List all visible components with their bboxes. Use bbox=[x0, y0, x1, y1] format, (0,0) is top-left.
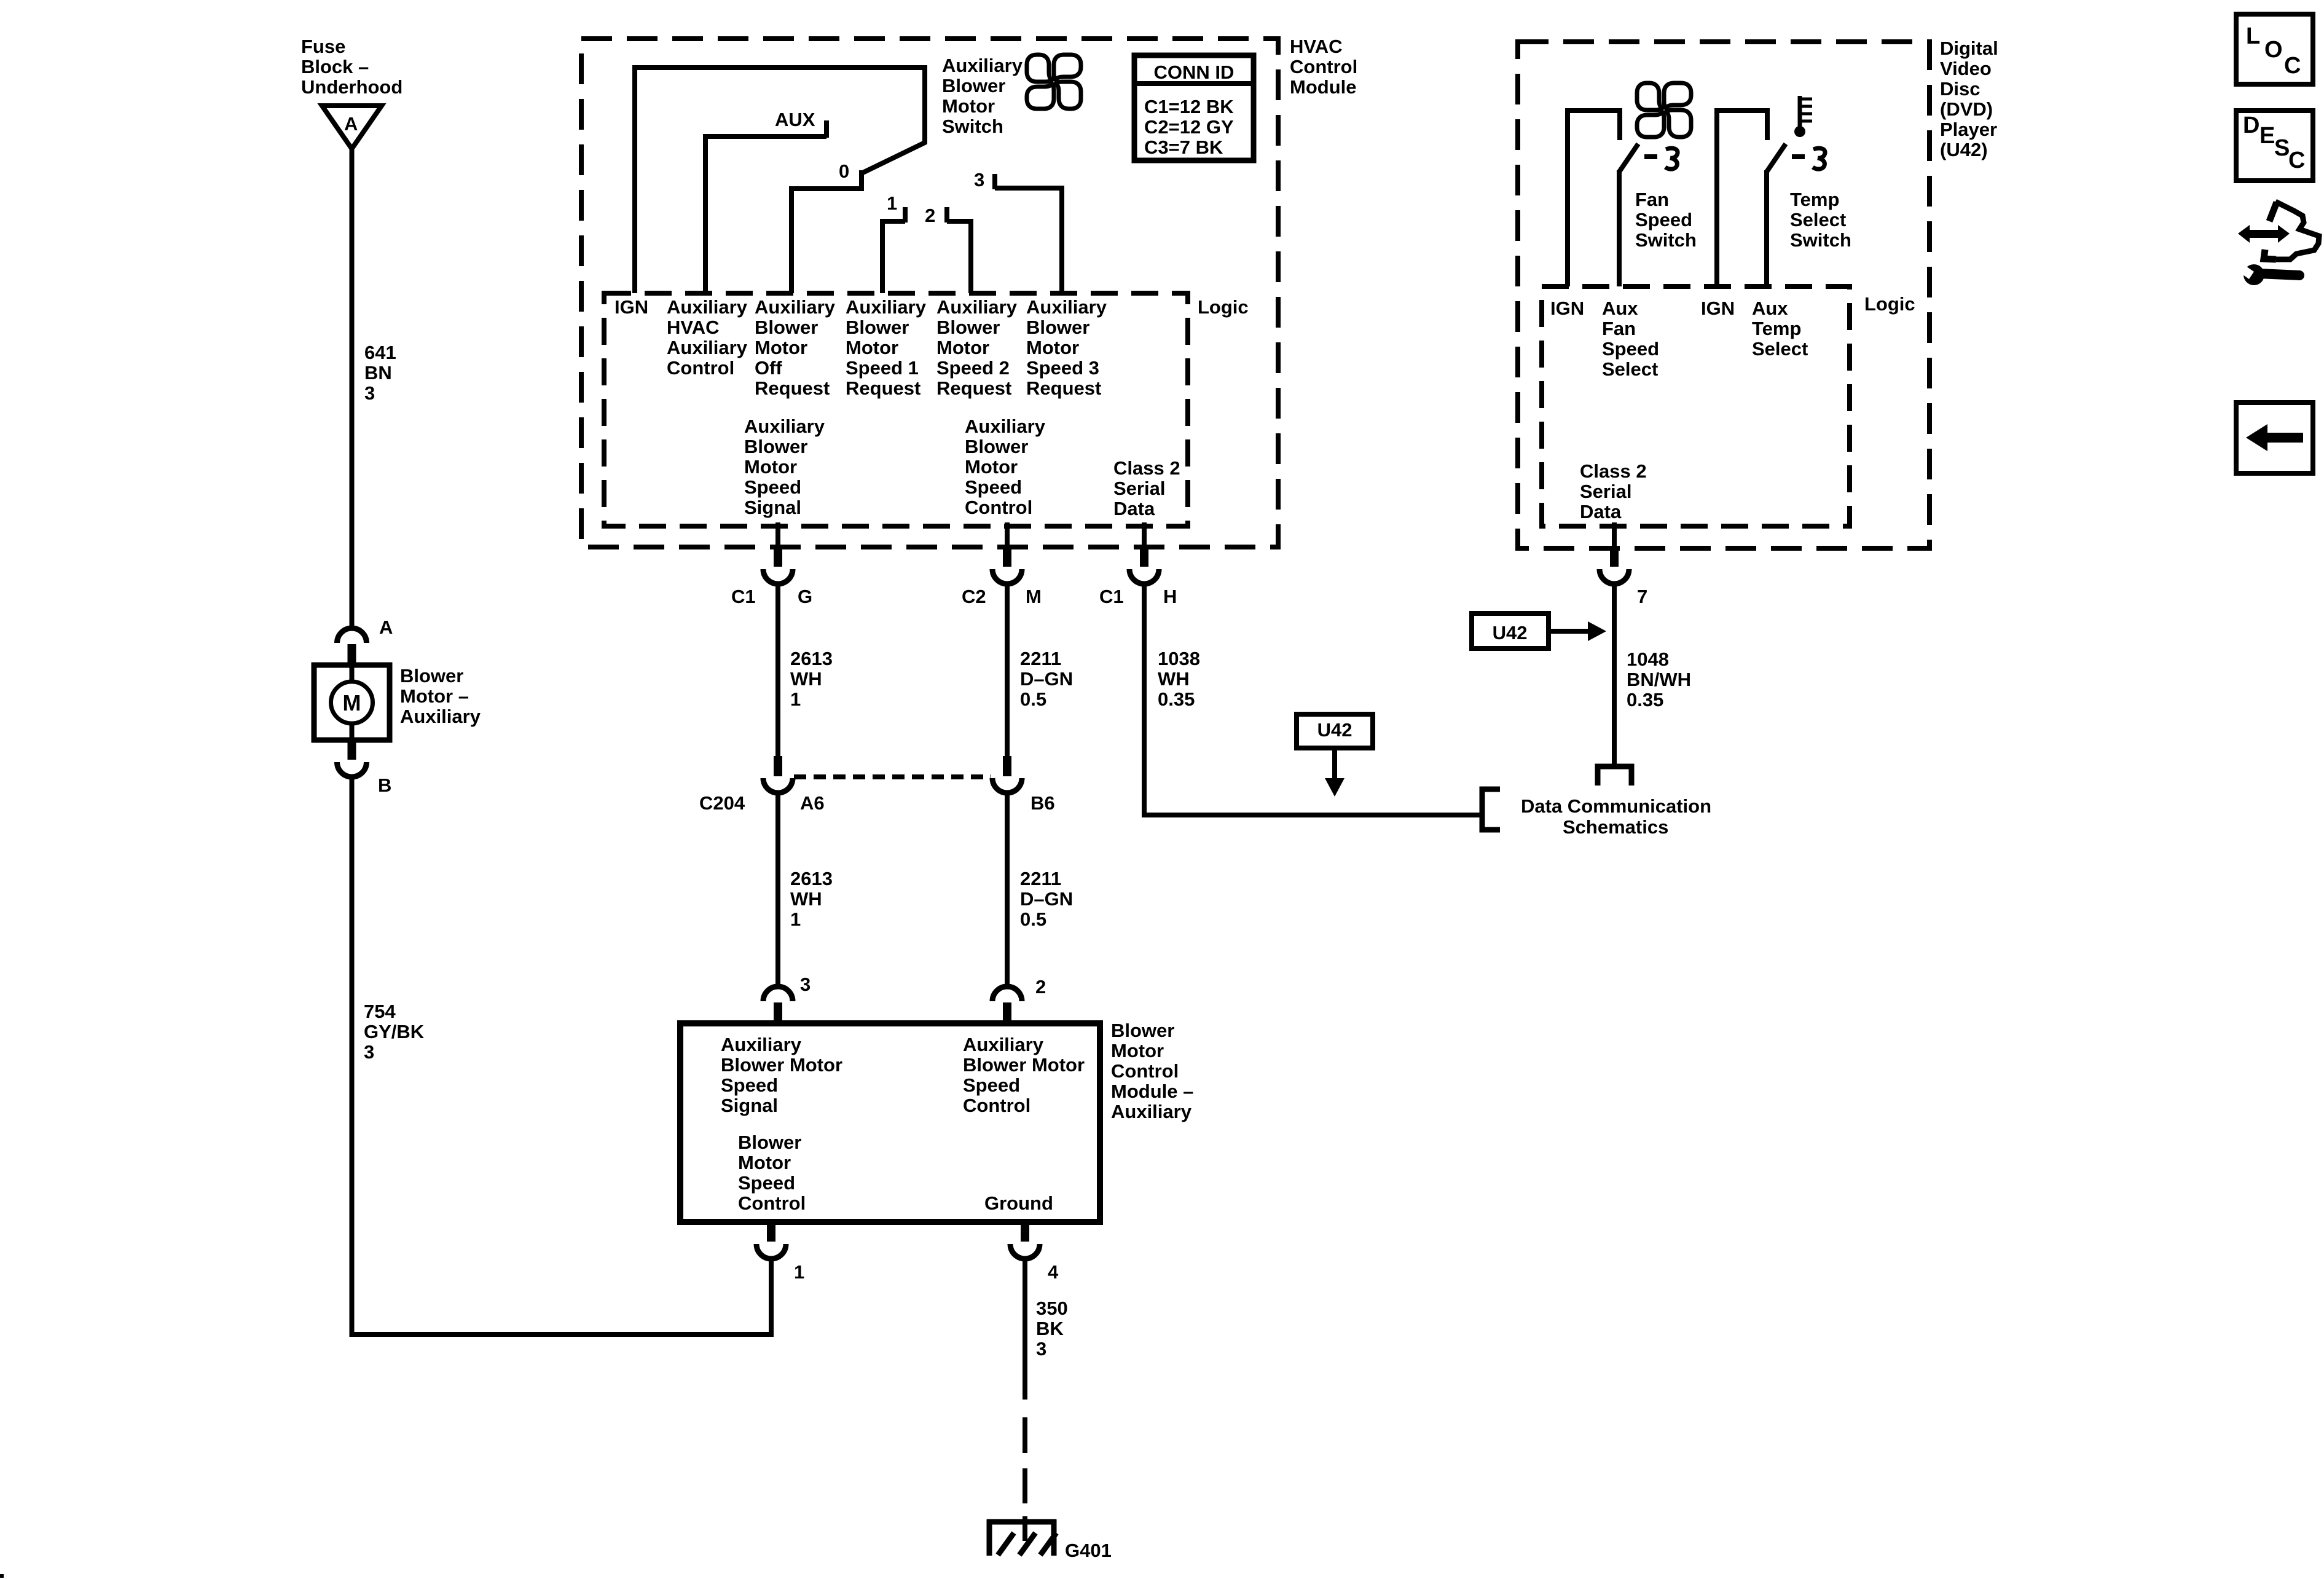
svg-text:BN/WH: BN/WH bbox=[1627, 669, 1691, 690]
svg-text:IGN: IGN bbox=[1701, 297, 1735, 319]
svg-text:O: O bbox=[2264, 37, 2283, 63]
CONN ID table bbox=[1134, 55, 1254, 160]
svg-text:3: 3 bbox=[364, 382, 375, 404]
svg-text:1: 1 bbox=[794, 1261, 804, 1283]
svg-text:Blower: Blower bbox=[744, 436, 807, 457]
svg-text:Switch: Switch bbox=[1790, 229, 1851, 251]
svg-text:Auxiliary: Auxiliary bbox=[667, 296, 748, 318]
svg-text:Control: Control bbox=[963, 1095, 1030, 1116]
svg-text:Motor: Motor bbox=[846, 337, 898, 358]
svg-text:Auxiliary: Auxiliary bbox=[1111, 1101, 1192, 1122]
svg-text:Video: Video bbox=[1940, 58, 1992, 79]
svg-text:GY/BK: GY/BK bbox=[364, 1021, 425, 1042]
svg-text:Auxiliary: Auxiliary bbox=[846, 296, 927, 318]
svg-text:Digital: Digital bbox=[1940, 37, 1998, 59]
svg-text:Module: Module bbox=[1290, 76, 1357, 98]
svg-text:Speed: Speed bbox=[1602, 338, 1659, 360]
fan icon (HVAC) bbox=[1027, 55, 1081, 109]
svg-text:754: 754 bbox=[364, 1001, 396, 1022]
U42 arrow right bbox=[1549, 629, 1589, 634]
svg-text:Speed: Speed bbox=[963, 1074, 1020, 1096]
svg-text:D–GN: D–GN bbox=[1020, 668, 1073, 690]
connector C204 pin A6 bbox=[774, 756, 782, 776]
wire 2211 D-GN 0.5 (lower) bbox=[1005, 793, 1010, 989]
fuse block connector A (triangle) bbox=[322, 106, 382, 149]
svg-text:3: 3 bbox=[364, 1041, 374, 1063]
connector pin 4 bbox=[1021, 1221, 1029, 1242]
wire 350 BK 3 bbox=[1023, 1259, 1027, 1400]
blower motor - auxiliary bbox=[314, 665, 390, 740]
svg-text:Control: Control bbox=[667, 357, 734, 379]
svg-text:WH: WH bbox=[1158, 668, 1190, 690]
svg-text:Control: Control bbox=[965, 497, 1032, 518]
wire 754 GY/BK 3 bbox=[352, 776, 772, 1334]
svg-text:BN: BN bbox=[364, 362, 392, 384]
DVD player box bbox=[1518, 42, 1929, 548]
svg-text:Motor: Motor bbox=[965, 456, 1018, 478]
C204 dashed link bbox=[794, 774, 991, 779]
svg-text:Auxiliary: Auxiliary bbox=[667, 337, 748, 358]
svg-text:Select: Select bbox=[1602, 358, 1658, 380]
svg-text:Request: Request bbox=[846, 377, 921, 399]
svg-text:Data: Data bbox=[1113, 498, 1155, 519]
svg-text:Blower: Blower bbox=[1111, 1020, 1174, 1041]
svg-text:Select: Select bbox=[1752, 338, 1808, 360]
svg-text:0.5: 0.5 bbox=[1020, 688, 1046, 710]
DVD logic box bbox=[1542, 286, 1850, 526]
connector C1 pin H bbox=[1142, 522, 1147, 548]
svg-text:C1: C1 bbox=[731, 586, 756, 607]
U42 arrow down bbox=[1332, 748, 1337, 779]
svg-text:3: 3 bbox=[1036, 1338, 1046, 1360]
svg-text:HVAC: HVAC bbox=[1290, 36, 1343, 57]
svg-text:3: 3 bbox=[974, 169, 984, 191]
fan speed switch bbox=[1568, 111, 1620, 286]
svg-text:E: E bbox=[2259, 123, 2275, 149]
svg-text:M: M bbox=[343, 690, 361, 715]
svg-text:Motor: Motor bbox=[936, 337, 989, 358]
svg-text:Speed: Speed bbox=[965, 476, 1022, 498]
svg-text:Off: Off bbox=[755, 357, 782, 379]
svg-text:B: B bbox=[378, 774, 391, 796]
schematic-reference icon (arrows + wrench) bbox=[2248, 230, 2279, 238]
ground G401 bbox=[987, 1519, 1056, 1525]
svg-text:2211: 2211 bbox=[1020, 648, 1061, 669]
wire 2211 D-GN 0.5 (upper) bbox=[1005, 584, 1010, 757]
svg-text:Auxiliary: Auxiliary bbox=[936, 296, 1018, 318]
DESC icon bbox=[2236, 111, 2313, 181]
svg-text:2211: 2211 bbox=[1020, 868, 1061, 889]
svg-text:1038: 1038 bbox=[1158, 648, 1200, 669]
svg-text:Class 2: Class 2 bbox=[1113, 457, 1180, 479]
svg-text:2: 2 bbox=[1035, 976, 1046, 998]
svg-text:B6: B6 bbox=[1030, 792, 1055, 814]
svg-text:A: A bbox=[344, 113, 358, 135]
svg-text:Motor: Motor bbox=[755, 337, 807, 358]
svg-text:C: C bbox=[2284, 53, 2301, 79]
svg-text:Motor: Motor bbox=[1111, 1040, 1164, 1061]
connector B of blower motor bbox=[348, 739, 356, 760]
connector pin 3 of blower motor control module bbox=[763, 986, 793, 1001]
svg-text:M: M bbox=[1026, 586, 1042, 607]
svg-text:WH: WH bbox=[790, 668, 822, 690]
svg-text:3: 3 bbox=[800, 974, 811, 995]
svg-text:2: 2 bbox=[925, 205, 935, 226]
svg-text:Speed 2: Speed 2 bbox=[936, 357, 1010, 379]
svg-text:641: 641 bbox=[364, 342, 396, 363]
U42 reference box (left) bbox=[1297, 714, 1373, 748]
svg-text:Temp: Temp bbox=[1752, 318, 1801, 339]
svg-text:1048: 1048 bbox=[1627, 648, 1669, 670]
U42 reference box (right) bbox=[1472, 613, 1549, 648]
contact 1 bbox=[903, 207, 908, 222]
svg-text:Ground: Ground bbox=[984, 1192, 1053, 1214]
svg-text:Data Communication: Data Communication bbox=[1521, 795, 1711, 817]
svg-text:Motor –: Motor – bbox=[400, 685, 469, 707]
contact 3 bbox=[992, 174, 997, 189]
svg-text:Auxiliary: Auxiliary bbox=[942, 55, 1023, 76]
svg-text:G401: G401 bbox=[1065, 1540, 1112, 1561]
svg-text:Switch: Switch bbox=[942, 116, 1003, 137]
svg-text:C2=12 GY: C2=12 GY bbox=[1144, 116, 1234, 138]
svg-text:Fan: Fan bbox=[1635, 189, 1669, 210]
svg-text:Blower: Blower bbox=[738, 1132, 801, 1153]
svg-text:C1=12 BK: C1=12 BK bbox=[1144, 96, 1234, 117]
svg-text:Data: Data bbox=[1580, 501, 1622, 522]
svg-text:Temp: Temp bbox=[1790, 189, 1839, 210]
svg-text:0.35: 0.35 bbox=[1158, 688, 1195, 710]
contact 2 bbox=[944, 207, 949, 222]
svg-text:Auxiliary: Auxiliary bbox=[1026, 296, 1107, 318]
svg-text:Auxiliary: Auxiliary bbox=[400, 706, 481, 727]
svg-text:Speed 3: Speed 3 bbox=[1026, 357, 1099, 379]
svg-text:Fuse: Fuse bbox=[301, 36, 345, 57]
svg-text:D: D bbox=[2243, 112, 2259, 138]
svg-text:0.35: 0.35 bbox=[1627, 689, 1663, 711]
svg-text:C2: C2 bbox=[962, 586, 986, 607]
svg-text:Request: Request bbox=[1026, 377, 1101, 399]
svg-text:0.5: 0.5 bbox=[1020, 908, 1046, 930]
svg-text:Blower: Blower bbox=[942, 75, 1005, 96]
svg-text:U42: U42 bbox=[1317, 719, 1352, 741]
connector pin 1 bbox=[767, 1221, 775, 1242]
svg-text:Signal: Signal bbox=[721, 1095, 778, 1116]
svg-text:A: A bbox=[379, 616, 393, 638]
svg-text:Auxiliary: Auxiliary bbox=[965, 415, 1046, 437]
svg-text:2613: 2613 bbox=[790, 648, 833, 669]
svg-text:Logic: Logic bbox=[1198, 296, 1249, 318]
LOC icon bbox=[2236, 14, 2313, 84]
svg-text:Control: Control bbox=[738, 1192, 806, 1214]
connector C204 pin B6 bbox=[1003, 756, 1011, 776]
HVAC logic box bbox=[604, 293, 1188, 526]
svg-text:Player: Player bbox=[1940, 119, 1997, 140]
svg-text:H: H bbox=[1163, 586, 1177, 607]
svg-text:AUX: AUX bbox=[775, 109, 815, 130]
svg-text:Disc: Disc bbox=[1940, 78, 1980, 100]
svg-text:1: 1 bbox=[790, 908, 801, 930]
svg-text:A6: A6 bbox=[800, 792, 825, 814]
thermometer icon bbox=[1798, 96, 1802, 128]
svg-text:Switch: Switch bbox=[1635, 229, 1697, 251]
svg-text:Schematics: Schematics bbox=[1563, 816, 1668, 838]
svg-text:4: 4 bbox=[1048, 1261, 1059, 1283]
dashed ground wire bbox=[1023, 1417, 1027, 1453]
svg-text:Control: Control bbox=[1111, 1060, 1179, 1082]
svg-text:Blower: Blower bbox=[846, 317, 909, 338]
aux blower motor switch wiring bbox=[635, 68, 925, 293]
svg-text:Auxiliary: Auxiliary bbox=[963, 1034, 1044, 1055]
svg-text:Motor: Motor bbox=[738, 1152, 791, 1173]
svg-text:Aux: Aux bbox=[1602, 297, 1638, 319]
svg-text:Motor: Motor bbox=[744, 456, 797, 478]
svg-text:IGN: IGN bbox=[1550, 297, 1584, 319]
svg-text:2613: 2613 bbox=[790, 868, 833, 889]
svg-text:Blower: Blower bbox=[755, 317, 818, 338]
svg-text:Control: Control bbox=[1290, 56, 1357, 77]
svg-text:Blower Motor: Blower Motor bbox=[963, 1054, 1085, 1076]
wire 2613 WH 1 (upper) bbox=[775, 584, 780, 757]
svg-text:U42: U42 bbox=[1493, 622, 1528, 644]
connector A of blower motor bbox=[337, 628, 367, 643]
svg-text:350: 350 bbox=[1036, 1297, 1068, 1319]
svg-text:Auxiliary: Auxiliary bbox=[755, 296, 836, 318]
svg-text:L: L bbox=[2246, 23, 2260, 49]
wire 1048 BN/WH 0.35 bbox=[1612, 585, 1617, 764]
connector pin 2 of blower motor control module bbox=[992, 986, 1022, 1001]
svg-text:Auxiliary: Auxiliary bbox=[721, 1034, 802, 1055]
svg-text:D–GN: D–GN bbox=[1020, 888, 1073, 910]
wire 2613 WH 1 (lower) bbox=[775, 793, 780, 989]
svg-text:Module –: Module – bbox=[1111, 1081, 1193, 1102]
svg-text:C3=7 BK: C3=7 BK bbox=[1144, 136, 1223, 158]
svg-text:Blower: Blower bbox=[1026, 317, 1089, 338]
svg-text:Underhood: Underhood bbox=[301, 76, 402, 98]
svg-text:S: S bbox=[2274, 135, 2290, 161]
svg-text:1: 1 bbox=[887, 192, 897, 214]
svg-text:Aux: Aux bbox=[1752, 297, 1788, 319]
svg-text:Blower: Blower bbox=[936, 317, 1000, 338]
svg-text:C204: C204 bbox=[699, 792, 745, 814]
svg-text:Serial: Serial bbox=[1580, 481, 1631, 502]
contact AUX bbox=[824, 120, 829, 138]
svg-text:1: 1 bbox=[790, 688, 801, 710]
svg-text:Blower: Blower bbox=[965, 436, 1028, 457]
blower motor control module - auxiliary box bbox=[680, 1023, 1100, 1222]
svg-text:HVAC: HVAC bbox=[667, 317, 720, 338]
svg-text:Speed 1: Speed 1 bbox=[846, 357, 919, 379]
svg-text:Speed: Speed bbox=[1635, 209, 1692, 230]
svg-text:Logic: Logic bbox=[1864, 293, 1915, 315]
off-page bracket to data communication schematics bbox=[1482, 789, 1500, 830]
svg-text:Motor: Motor bbox=[1026, 337, 1079, 358]
connector 7 of DVD player bbox=[1612, 522, 1617, 548]
svg-text:Auxiliary: Auxiliary bbox=[744, 415, 825, 437]
contact 0 bbox=[859, 170, 864, 191]
svg-text:0: 0 bbox=[839, 160, 849, 182]
svg-text:BK: BK bbox=[1036, 1318, 1064, 1339]
svg-text:Fan: Fan bbox=[1602, 318, 1636, 339]
svg-text:Speed: Speed bbox=[744, 476, 801, 498]
svg-text:CONN ID: CONN ID bbox=[1154, 61, 1235, 83]
svg-text:Speed: Speed bbox=[738, 1172, 795, 1194]
svg-text:Speed: Speed bbox=[721, 1074, 778, 1096]
svg-text:G: G bbox=[798, 586, 812, 607]
svg-text:(U42): (U42) bbox=[1940, 139, 1988, 160]
svg-text:Blower Motor: Blower Motor bbox=[721, 1054, 842, 1076]
connector C1 pin G bbox=[775, 522, 780, 548]
HVAC control module box bbox=[581, 39, 1278, 547]
svg-text:Request: Request bbox=[936, 377, 1011, 399]
svg-text:Class 2: Class 2 bbox=[1580, 460, 1647, 482]
svg-text:Select: Select bbox=[1790, 209, 1846, 230]
connector C2 pin M bbox=[1005, 522, 1010, 548]
back arrow icon bbox=[2236, 403, 2313, 473]
svg-text:WH: WH bbox=[790, 888, 822, 910]
svg-text:Block –: Block – bbox=[301, 56, 369, 77]
off-page symbol for wire 1048 bbox=[1598, 766, 1631, 786]
svg-text:(DVD): (DVD) bbox=[1940, 98, 1993, 120]
svg-text:7: 7 bbox=[1637, 586, 1647, 607]
svg-text:Request: Request bbox=[755, 377, 830, 399]
svg-text:C: C bbox=[2288, 148, 2305, 173]
svg-text:Blower: Blower bbox=[400, 665, 463, 687]
wire 641 BN 3 bbox=[350, 149, 355, 629]
wire 1038 WH 0.35 bbox=[1144, 584, 1480, 815]
corner mark bbox=[0, 1574, 4, 1578]
svg-text:Serial: Serial bbox=[1113, 478, 1165, 499]
svg-text:IGN: IGN bbox=[614, 296, 648, 318]
svg-text:C1: C1 bbox=[1099, 586, 1124, 607]
svg-text:Motor: Motor bbox=[942, 95, 995, 117]
temp select switch bbox=[1717, 111, 1767, 286]
svg-text:Signal: Signal bbox=[744, 497, 801, 518]
